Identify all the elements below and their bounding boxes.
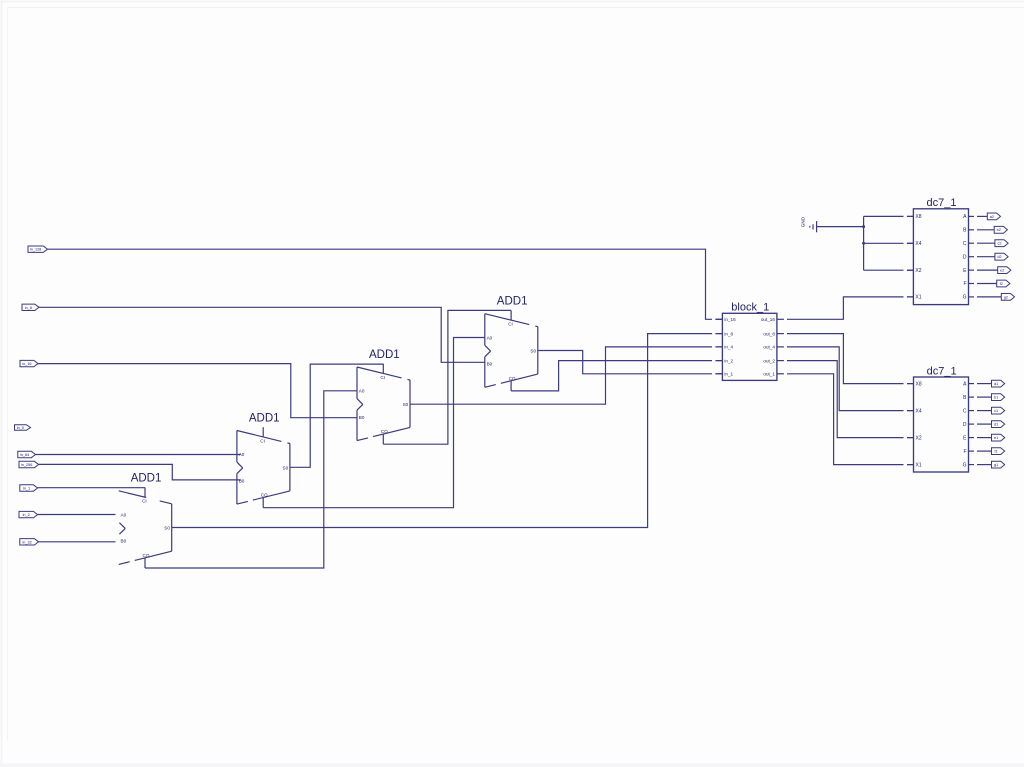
- svg-text:X8: X8: [916, 381, 922, 387]
- svg-text:c1: c1: [994, 409, 998, 413]
- svg-text:in_64: in_64: [20, 453, 29, 457]
- svg-text:in_0: in_0: [17, 426, 24, 430]
- svg-text:CI: CI: [508, 322, 513, 327]
- svg-text:F: F: [963, 281, 966, 287]
- svg-text:X4: X4: [916, 408, 922, 414]
- svg-text:in_1: in_1: [23, 487, 30, 491]
- svg-text:b2: b2: [997, 228, 1001, 232]
- svg-text:dc7_1: dc7_1: [927, 365, 957, 377]
- svg-text:dc7_1: dc7_1: [927, 197, 957, 209]
- svg-text:out_1: out_1: [763, 372, 775, 377]
- svg-text:out_16: out_16: [761, 317, 775, 322]
- svg-text:C: C: [963, 241, 967, 247]
- svg-text:S0: S0: [530, 349, 536, 354]
- svg-text:A0: A0: [359, 389, 365, 394]
- svg-text:X1: X1: [916, 462, 922, 468]
- svg-text:e2: e2: [1000, 269, 1004, 273]
- svg-text:D: D: [963, 254, 967, 260]
- svg-text:CI: CI: [142, 499, 147, 504]
- svg-text:in_2: in_2: [724, 358, 733, 363]
- svg-text:A0: A0: [239, 452, 245, 457]
- svg-text:G: G: [963, 295, 967, 301]
- svg-text:out_2: out_2: [763, 358, 775, 363]
- svg-text:in_32: in_32: [22, 540, 31, 544]
- svg-text:CO: CO: [381, 429, 388, 434]
- svg-text:out_4: out_4: [763, 345, 775, 350]
- svg-text:ADD1: ADD1: [497, 296, 528, 308]
- svg-text:ADD1: ADD1: [369, 349, 400, 361]
- svg-text:X8: X8: [915, 214, 921, 220]
- svg-text:X2: X2: [915, 268, 921, 274]
- svg-text:CO: CO: [143, 553, 150, 558]
- svg-text:S0: S0: [283, 465, 289, 470]
- svg-text:CO: CO: [509, 376, 516, 381]
- svg-text:in_1: in_1: [724, 372, 733, 377]
- svg-text:CI: CI: [380, 375, 385, 380]
- svg-text:B0: B0: [239, 478, 245, 483]
- svg-text:f1: f1: [995, 450, 998, 454]
- svg-text:S0: S0: [164, 526, 170, 531]
- svg-text:C: C: [963, 408, 967, 414]
- svg-text:F: F: [963, 449, 966, 455]
- svg-text:g2: g2: [1004, 295, 1008, 299]
- svg-text:X2: X2: [916, 435, 922, 441]
- svg-text:ADD1: ADD1: [131, 473, 162, 485]
- svg-text:out_8: out_8: [763, 331, 775, 336]
- svg-text:g1: g1: [994, 463, 998, 467]
- svg-text:in_256: in_256: [21, 463, 32, 467]
- svg-text:in_4: in_4: [724, 345, 733, 350]
- svg-text:X4: X4: [915, 241, 921, 247]
- svg-text:D: D: [963, 422, 967, 428]
- svg-text:B0: B0: [359, 415, 365, 420]
- svg-text:CI: CI: [260, 438, 265, 443]
- svg-text:d2: d2: [997, 255, 1001, 259]
- svg-text:B0: B0: [121, 539, 127, 544]
- svg-text:a2: a2: [990, 215, 994, 219]
- svg-text:in_8: in_8: [25, 306, 32, 310]
- svg-text:in_128: in_128: [30, 248, 41, 252]
- svg-text:GND: GND: [801, 216, 806, 227]
- svg-text:X1: X1: [915, 295, 921, 301]
- svg-text:d1: d1: [994, 423, 998, 427]
- svg-text:CO: CO: [261, 493, 268, 498]
- svg-text:in_16: in_16: [724, 317, 736, 322]
- svg-text:a1: a1: [994, 382, 998, 386]
- svg-text:block_1: block_1: [731, 302, 769, 314]
- svg-text:G: G: [963, 462, 967, 468]
- svg-text:A0: A0: [121, 512, 127, 517]
- svg-text:in_16: in_16: [22, 362, 31, 366]
- svg-text:ADD1: ADD1: [249, 412, 280, 424]
- svg-text:e1: e1: [994, 436, 998, 440]
- svg-text:B0: B0: [487, 362, 493, 367]
- svg-text:c2: c2: [997, 242, 1001, 246]
- svg-text:b1: b1: [994, 396, 998, 400]
- svg-text:in_2: in_2: [23, 513, 30, 517]
- svg-text:f2: f2: [1000, 282, 1003, 286]
- svg-text:A0: A0: [487, 335, 493, 340]
- svg-text:S0: S0: [403, 402, 409, 407]
- svg-text:in_8: in_8: [724, 331, 733, 336]
